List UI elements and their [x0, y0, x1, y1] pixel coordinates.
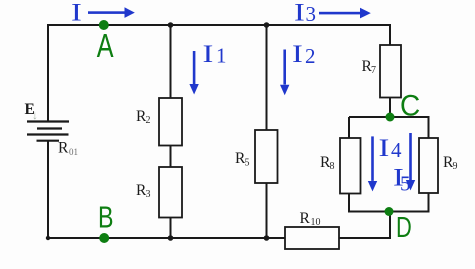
- svg-text:I: I: [292, 40, 303, 68]
- svg-text:A: A: [97, 28, 114, 65]
- resistor R9: [419, 138, 438, 193]
- svg-text:7: 7: [371, 65, 376, 76]
- resistor R7: [380, 45, 401, 98]
- label I3: [294, 0, 316, 26]
- label I2: [292, 40, 316, 68]
- node C: [386, 90, 421, 123]
- resistor R3: [159, 167, 182, 218]
- current I5 arrow: [406, 133, 415, 190]
- label R8: [320, 154, 335, 172]
- resistor R2: [159, 98, 182, 146]
- battery E: [27, 122, 69, 141]
- label R2: [136, 108, 151, 126]
- junction top R2 branch: [168, 22, 174, 28]
- wire D down: [339, 212, 390, 239]
- svg-text:I: I: [71, 0, 82, 26]
- svg-text:01: 01: [69, 147, 78, 157]
- svg-text:D: D: [396, 212, 412, 244]
- svg-text:10: 10: [311, 217, 321, 228]
- svg-text:I: I: [294, 0, 305, 26]
- label R10: [300, 210, 321, 228]
- wire branch R2R3: [170, 25, 172, 238]
- wire left lower: [48, 141, 285, 238]
- svg-text:9: 9: [453, 161, 458, 172]
- label R7: [362, 58, 377, 76]
- label I5: [393, 164, 411, 196]
- label E: [25, 101, 39, 122]
- label I: [71, 0, 82, 26]
- svg-text:3: 3: [146, 189, 151, 200]
- resistor R01 label: [58, 140, 78, 158]
- svg-text:C: C: [400, 90, 420, 123]
- node B: [98, 200, 113, 243]
- svg-text:↓: ↓: [32, 108, 38, 122]
- svg-text:R: R: [300, 210, 311, 227]
- junction bottom R5 branch: [264, 235, 270, 241]
- resistor R8: [340, 138, 361, 194]
- node A: [97, 20, 114, 65]
- current I1 arrow: [189, 51, 198, 95]
- label R5: [235, 150, 250, 169]
- junction bottom R2 branch: [168, 235, 174, 241]
- svg-text:1: 1: [216, 44, 227, 68]
- svg-text:B: B: [98, 200, 113, 234]
- label R9: [443, 154, 458, 172]
- junction bottom left: [46, 236, 50, 240]
- label I1: [203, 40, 227, 68]
- svg-text:8: 8: [330, 161, 335, 172]
- current I4 arrow: [368, 136, 377, 191]
- svg-text:5: 5: [245, 158, 250, 169]
- resistor R10: [285, 227, 339, 249]
- current I2 arrow: [280, 50, 289, 96]
- wire parallel loop: [349, 117, 429, 212]
- junction top R5 branch: [264, 22, 270, 28]
- wire R7 to C: [389, 98, 391, 118]
- svg-text:4: 4: [391, 138, 402, 162]
- svg-text:2: 2: [146, 115, 151, 126]
- resistor R5: [255, 130, 278, 183]
- label I4: [379, 134, 403, 162]
- svg-text:R: R: [58, 140, 69, 157]
- svg-text:5: 5: [400, 172, 411, 196]
- current I3 arrow: [319, 8, 371, 19]
- svg-text:2: 2: [305, 44, 316, 68]
- wire branch R5: [266, 25, 268, 238]
- wire top: [48, 25, 390, 122]
- svg-text:I: I: [379, 134, 390, 162]
- current I arrow: [88, 7, 135, 18]
- svg-text:3: 3: [306, 2, 317, 26]
- label R3: [136, 182, 151, 200]
- svg-text:I: I: [203, 40, 214, 68]
- node D: [385, 207, 412, 244]
